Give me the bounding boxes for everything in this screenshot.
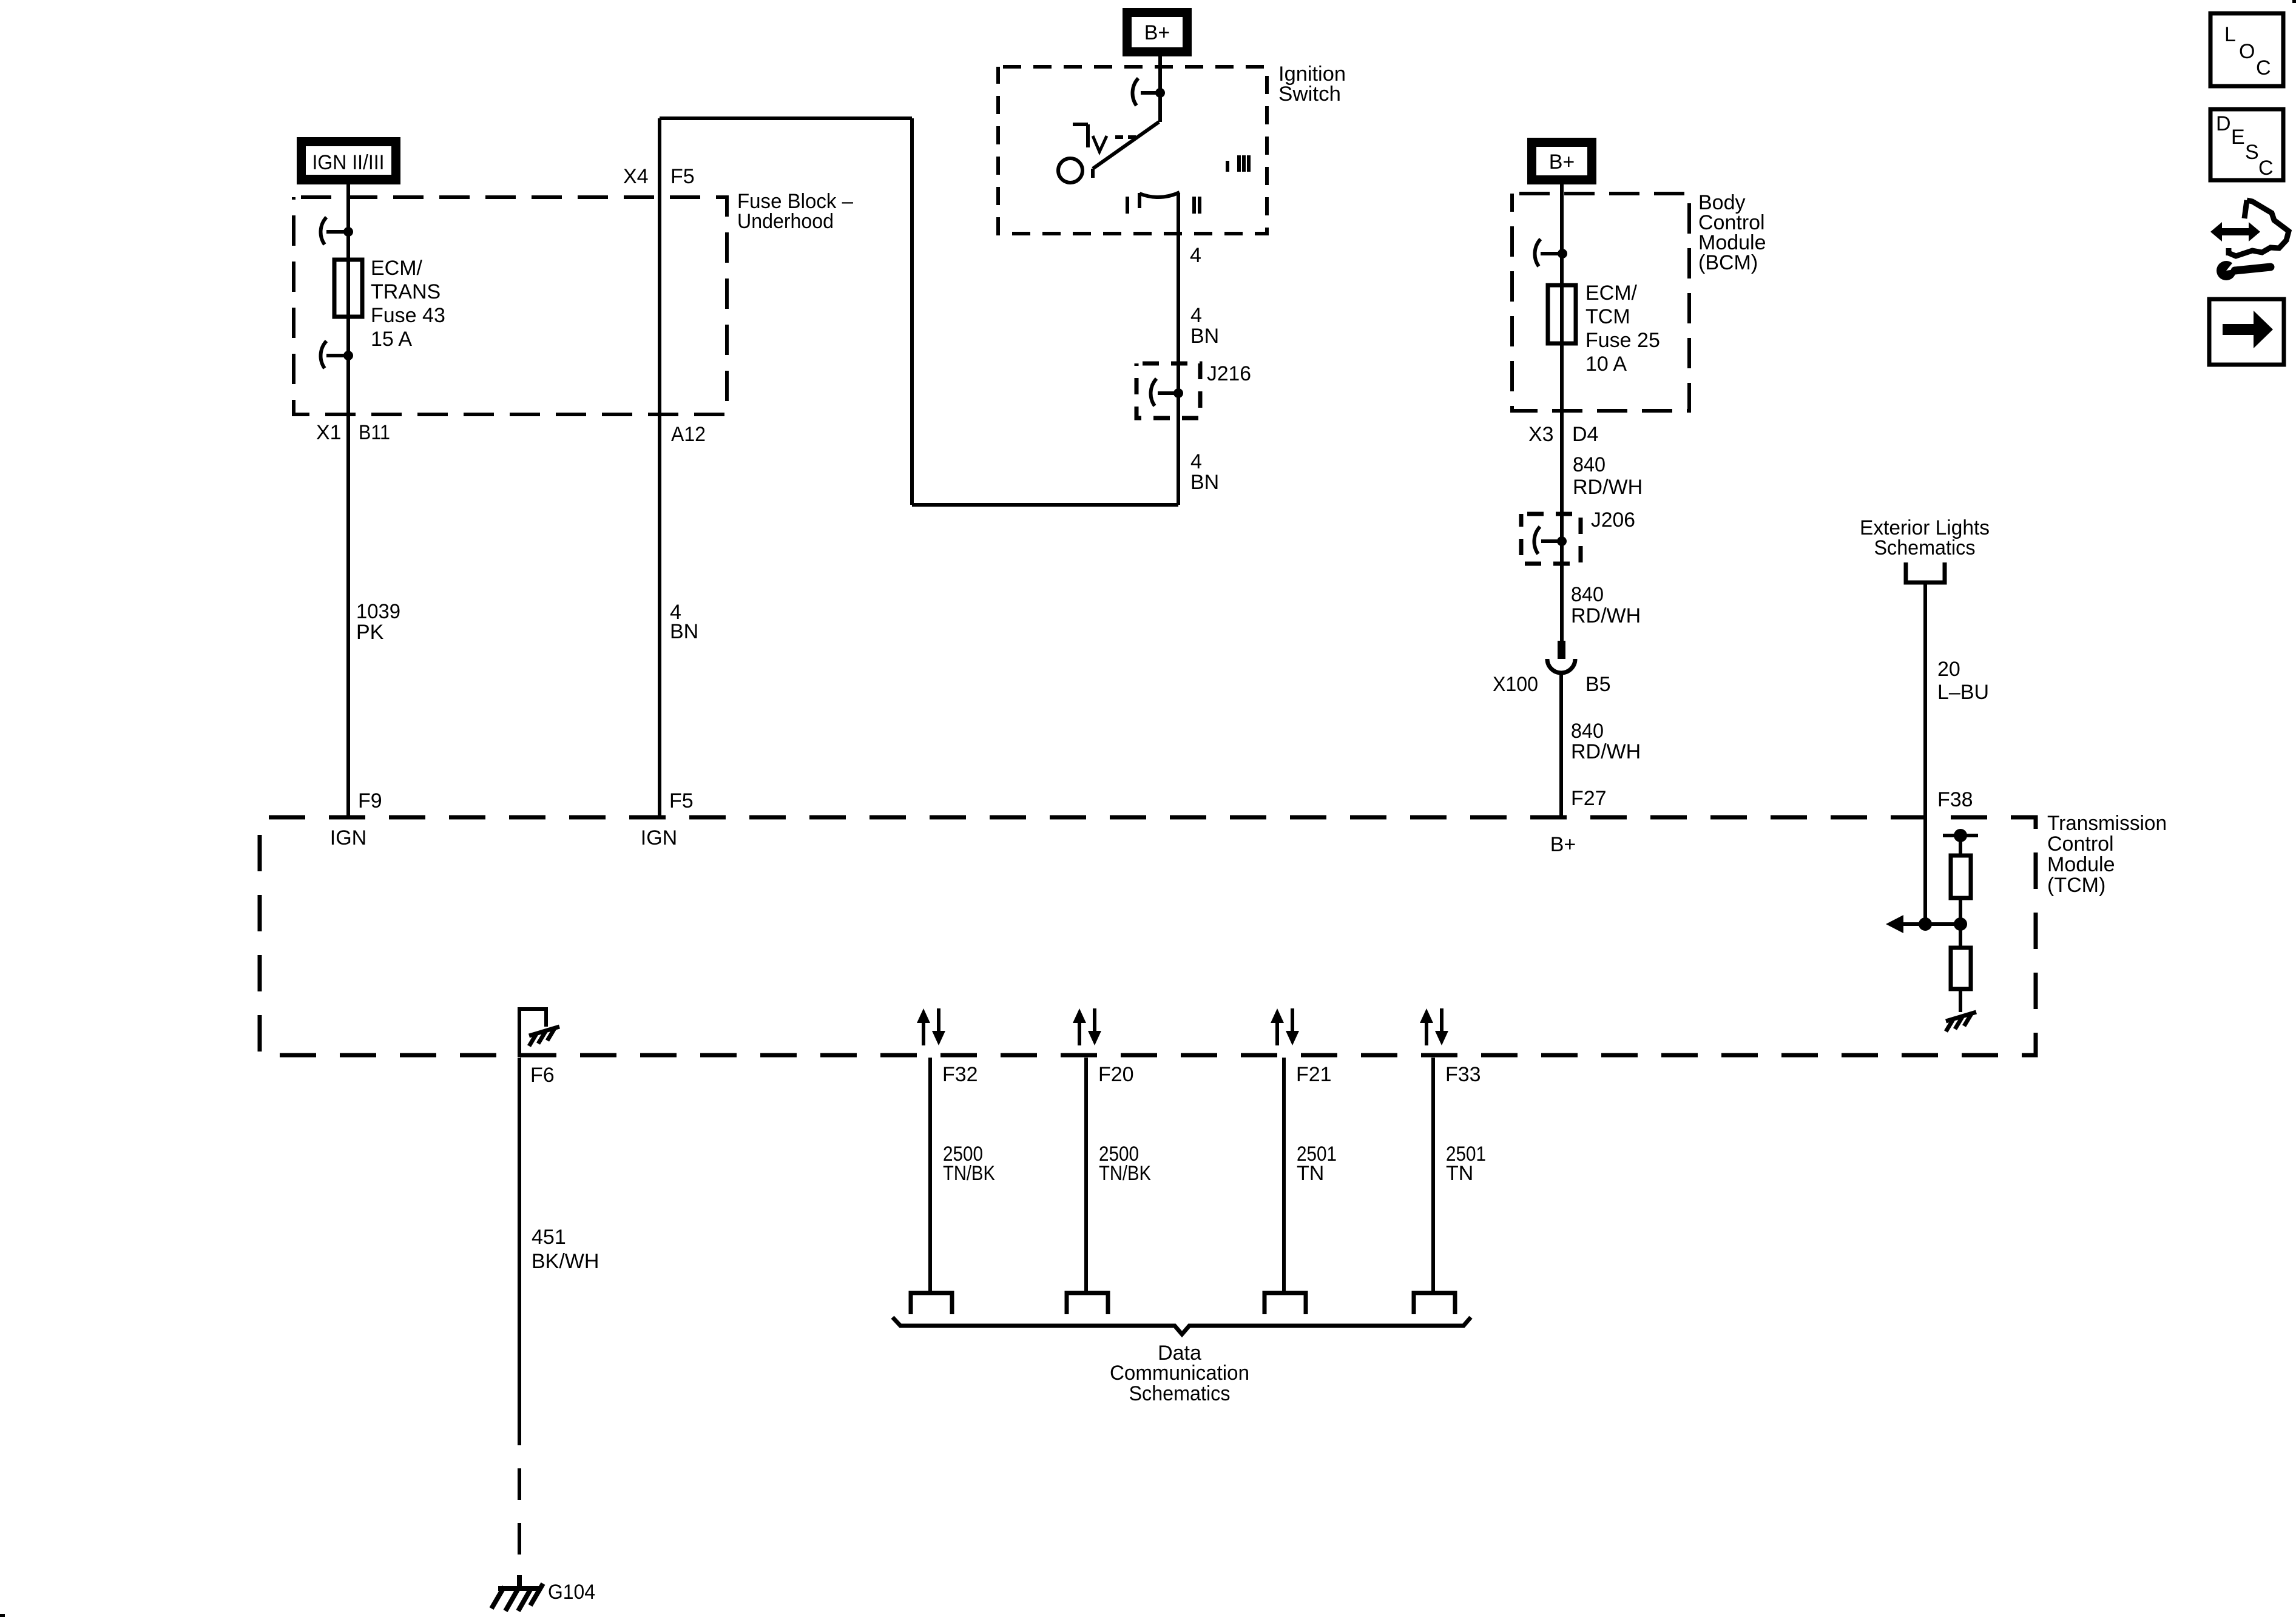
node A (F38 wire junction) [1919, 917, 1932, 931]
ground G104 symbol [491, 1575, 543, 1611]
wire label 2500 TN/BK (F32) [943, 1143, 995, 1185]
svg-text:E: E [2231, 126, 2245, 149]
icon LOC box [2210, 13, 2283, 86]
svg-text:(BCM): (BCM) [1698, 251, 1758, 274]
position dashes [1115, 135, 1136, 139]
ignition switch name [1278, 62, 1346, 106]
wire F32 [928, 1058, 932, 1292]
svg-text:A12: A12 [671, 423, 706, 446]
svg-text:Module: Module [2047, 853, 2115, 876]
svg-text:Transmission: Transmission [2047, 812, 2167, 835]
wire label 20 L-BU [1937, 658, 1989, 704]
wire ignition switch output vertical (through J216) [1177, 193, 1180, 505]
switch pole circle [1058, 158, 1082, 183]
position mark v [1093, 136, 1107, 152]
svg-text:S: S [2245, 141, 2259, 164]
bidirectional arrows F21 [1271, 1008, 1299, 1045]
fuse block dashed box (Fuse Block - Underhood) [294, 197, 727, 414]
internal chassis ground (F6) [529, 1027, 559, 1046]
wire label 451 BK/WH [532, 1226, 599, 1273]
TCM internal: top tick bar [1943, 834, 1978, 837]
wire label 840 RD/WH (3) [1571, 720, 1641, 763]
TCM dashed box [260, 817, 2036, 1055]
svg-text:D: D [2216, 112, 2231, 135]
contact arc left tick [1138, 193, 1141, 208]
icon vehicle/wrench [2210, 200, 2289, 280]
svg-text:L: L [2224, 23, 2236, 46]
svg-text:BK/WH: BK/WH [532, 1250, 599, 1273]
connector X100 male pin [1558, 641, 1565, 659]
svg-text:O: O [2239, 40, 2255, 63]
svg-text:4: 4 [1190, 244, 1201, 267]
svg-text:4: 4 [1190, 450, 1202, 473]
wire resistor2 to internal ground [1959, 989, 1962, 1012]
svg-text:F27: F27 [1571, 787, 1607, 810]
svg-text:B+: B+ [1549, 150, 1575, 174]
svg-text:X3: X3 [1528, 423, 1554, 446]
position tick I [1126, 197, 1129, 214]
svg-text:Fuse 43: Fuse 43 [371, 304, 445, 327]
svg-text:Underhood: Underhood [737, 210, 834, 233]
wire label 2501 TN (F21) [1297, 1143, 1337, 1185]
svg-text:F33: F33 [1445, 1063, 1481, 1086]
wire resistor1 to junction [1959, 898, 1962, 924]
off-page bracket F33 [1414, 1293, 1455, 1314]
wire label 1039 PK [356, 600, 400, 644]
bidirectional arrows F33 [1420, 1008, 1448, 1045]
svg-text:F20: F20 [1098, 1063, 1134, 1086]
svg-text:J206: J206 [1591, 508, 1635, 532]
wire junction to resistor 2 [1959, 924, 1962, 948]
TCM internal: node on tick [1954, 829, 1967, 842]
svg-text:F5: F5 [670, 165, 695, 188]
resistor R2 (pull-down) [1951, 948, 1971, 989]
svg-text:B11: B11 [359, 421, 390, 444]
bidirectional arrows F20 [1073, 1008, 1101, 1045]
svg-text:IGN: IGN [330, 826, 366, 849]
position tick (III) [1226, 161, 1229, 172]
icon DESC box [2210, 109, 2283, 180]
svg-text:Schematics: Schematics [1129, 1382, 1231, 1405]
wire F6 internal ground [519, 1009, 546, 1057]
wire bottom horizontal run to ignition switch output [912, 503, 1178, 507]
off-page bracket F21 [1264, 1293, 1306, 1314]
wire A12/F5 vertical through fuse block [658, 118, 661, 817]
wire B+ into switch [1158, 56, 1162, 122]
off-page bracket F32 [911, 1293, 952, 1314]
svg-text:RD/WH: RD/WH [1571, 604, 1641, 627]
BCM dashed box [1512, 194, 1689, 411]
svg-text:BN: BN [1190, 471, 1219, 494]
svg-text:15 A: 15 A [371, 328, 412, 351]
svg-text:X1: X1 [316, 421, 342, 444]
splice J206 dashed box [1521, 514, 1581, 564]
svg-text:Fuse 25: Fuse 25 [1585, 329, 1660, 352]
position bars II [1194, 197, 1200, 214]
svg-text:BN: BN [670, 620, 698, 643]
pin labels X3 D4 [1528, 423, 1598, 446]
pin labels X1 B11 [316, 421, 390, 444]
brace (data busses group) [893, 1317, 1471, 1334]
wire top horizontal run [660, 116, 912, 120]
ignition switch dashed box [998, 67, 1267, 234]
svg-text:4: 4 [1190, 304, 1202, 327]
power label box B+ (ignition) [1123, 8, 1192, 56]
wire F33 [1431, 1058, 1435, 1292]
svg-text:RD/WH: RD/WH [1571, 740, 1641, 763]
svg-text:L–BU: L–BU [1937, 681, 1989, 704]
switch lever [1093, 122, 1159, 169]
svg-text:TN/BK: TN/BK [943, 1162, 995, 1185]
wire label 2500 TN/BK (F20) [1099, 1143, 1151, 1185]
svg-text:F38: F38 [1937, 788, 1973, 811]
svg-text:G104: G104 [548, 1581, 595, 1604]
svg-text:RD/WH: RD/WH [1573, 476, 1643, 499]
contact terminal B+ (switch common) [1133, 78, 1165, 106]
svg-text:840: 840 [1571, 720, 1604, 743]
internal chassis ground (TCM right) [1946, 1012, 1976, 1031]
TCM name text [2047, 812, 2167, 897]
svg-text:1039: 1039 [356, 600, 400, 623]
vehicle outline [2229, 200, 2289, 256]
svg-text:J216: J216 [1207, 362, 1251, 385]
wire right vertical run [910, 118, 914, 505]
page corner mark (top right) [2292, 0, 2296, 3]
fuse block name text [737, 190, 853, 233]
page corner mark (bottom left) [0, 1614, 5, 1617]
svg-text:Communication: Communication [1110, 1362, 1249, 1385]
splice J216 contact [1151, 379, 1183, 406]
svg-text:(TCM): (TCM) [2047, 874, 2105, 897]
svg-text:IGN: IGN [641, 826, 677, 849]
pin labels X4 F5 [623, 165, 695, 188]
svg-text:840: 840 [1571, 583, 1604, 606]
BCM name text [1698, 191, 1766, 274]
node B (resistor junction) [1954, 917, 1967, 931]
wire label 2501 TN (F33) [1446, 1143, 1486, 1185]
contact terminal lower (fuse 43 out) [321, 341, 353, 368]
svg-text:IGN II/III: IGN II/III [312, 151, 385, 174]
splice J206 contact [1535, 527, 1567, 554]
svg-text:F6: F6 [530, 1064, 555, 1087]
svg-text:Schematics: Schematics [1874, 536, 1976, 559]
svg-text:PK: PK [356, 621, 384, 644]
svg-text:F9: F9 [358, 789, 382, 812]
splice J216 dashed box [1136, 363, 1200, 418]
svg-text:B+: B+ [1550, 833, 1576, 856]
svg-text:F5: F5 [669, 789, 694, 812]
wire F20 [1084, 1058, 1088, 1292]
svg-text:C: C [2258, 157, 2274, 180]
svg-text:B+: B+ [1144, 21, 1170, 44]
resistor R1 (pull-up) [1951, 856, 1971, 898]
contact terminal upper (fuse 43 feed) [321, 217, 353, 245]
wrench [2217, 261, 2271, 280]
position mark corner [1073, 124, 1088, 147]
svg-text:840: 840 [1573, 453, 1606, 476]
wire 451 BK/WH dashed [518, 1414, 521, 1578]
svg-text:X4: X4 [623, 165, 649, 188]
wire 20 L-BU to TCM pin F38 [1923, 584, 1927, 924]
wire F21 [1282, 1058, 1286, 1292]
svg-text:TN: TN [1446, 1162, 1473, 1185]
wire label 840 RD/WH (1) [1573, 453, 1643, 499]
svg-text:TRANS: TRANS [371, 280, 441, 303]
TCM internal: junction horizontal wire [1903, 922, 1960, 926]
lever end stub [1091, 169, 1095, 178]
wire below X100 to TCM pin F27 [1559, 673, 1563, 817]
fuse ECM/TRANS Fuse 43 15 A [334, 260, 362, 317]
svg-text:ECM/: ECM/ [371, 257, 423, 280]
icon forward arrow box [2209, 299, 2284, 365]
off-page bracket (exterior lights) [1906, 562, 1945, 582]
svg-text:D4: D4 [1572, 423, 1598, 446]
svg-text:C: C [2256, 56, 2271, 79]
wire 451 BK/WH solid [518, 1058, 521, 1414]
svg-text:TN: TN [1297, 1162, 1324, 1185]
contact arc II [1140, 192, 1180, 197]
contact terminal (BCM fuse feed) [1535, 239, 1567, 266]
wire B+ down to X100 [1560, 184, 1564, 642]
connector labels X100 B5 [1493, 673, 1611, 696]
svg-text:20: 20 [1937, 658, 1960, 681]
svg-text:451: 451 [532, 1226, 566, 1249]
svg-text:TCM: TCM [1585, 305, 1630, 328]
svg-text:Control: Control [2047, 832, 2114, 856]
wire label 4 BN (below J216) [1190, 450, 1219, 494]
wire label 4 BN (above J216) [1190, 304, 1219, 348]
svg-text:F21: F21 [1296, 1063, 1332, 1086]
svg-text:F32: F32 [942, 1063, 978, 1086]
wire F9 vertical (IGN II/III to TCM pin F9) [346, 184, 350, 817]
wire label 840 RD/WH (2) [1571, 583, 1641, 627]
off-page name Exterior Lights Schematics [1860, 516, 1990, 559]
wire label 4 BN (A12) [670, 601, 698, 643]
svg-text:10 A: 10 A [1585, 353, 1627, 376]
fuse ECM/TCM Fuse 25 10 A [1548, 285, 1576, 343]
svg-text:X100: X100 [1493, 673, 1538, 696]
svg-text:B5: B5 [1585, 673, 1611, 696]
power label box B+ (BCM) [1527, 138, 1596, 184]
svg-text:ECM/: ECM/ [1585, 282, 1638, 305]
position bars III [1239, 155, 1249, 172]
svg-text:Switch: Switch [1278, 83, 1341, 106]
connector X100 female cup [1547, 659, 1575, 673]
TCM internal: stub to resistor 1 [1959, 836, 1962, 856]
svg-text:BN: BN [1190, 325, 1219, 348]
off-page name Data Communication Schematics [1110, 1342, 1249, 1405]
bidirectional arrows F32 [917, 1008, 945, 1045]
svg-text:TN/BK: TN/BK [1099, 1162, 1151, 1185]
power label box IGN II/III [297, 137, 400, 184]
arrowhead (signal out, left) [1886, 915, 1903, 933]
double arrow [2210, 222, 2260, 241]
off-page bracket F20 [1067, 1293, 1108, 1314]
